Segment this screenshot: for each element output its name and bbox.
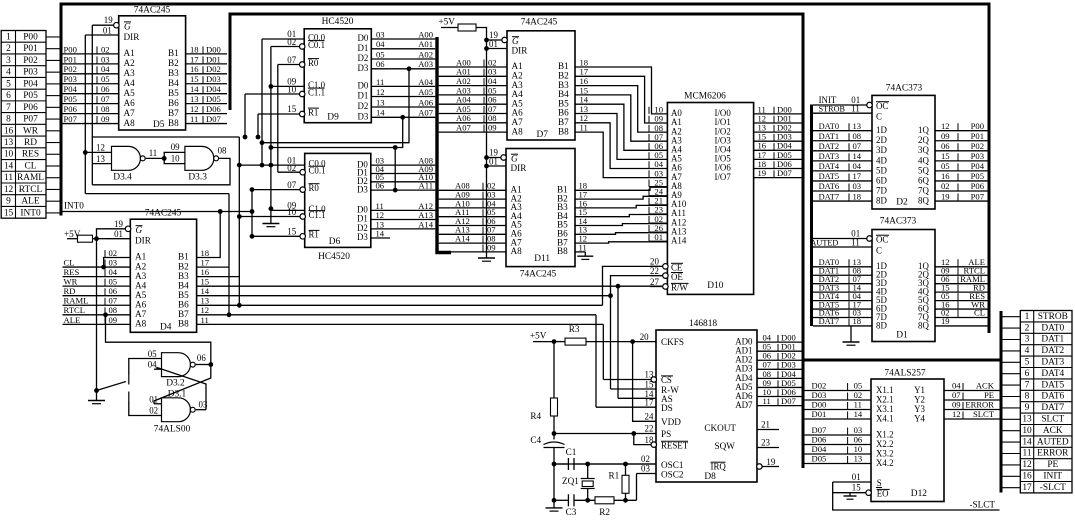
svg-text:A4: A4	[124, 78, 136, 88]
svg-text:74AC245: 74AC245	[521, 18, 558, 28]
svg-text:22: 22	[645, 423, 654, 433]
svg-text:15: 15	[852, 483, 861, 493]
svg-text:AUTED: AUTED	[1037, 437, 1069, 447]
svg-text:RD: RD	[64, 286, 76, 296]
svg-text:19: 19	[758, 168, 767, 178]
svg-text:11: 11	[851, 104, 860, 114]
svg-text:1: 1	[6, 32, 11, 42]
svg-text:09: 09	[488, 123, 497, 133]
wire D2 output 3Q pin 06 net P02	[935, 150, 988, 152]
svg-text:ACK: ACK	[976, 381, 995, 391]
svg-text:13: 13	[4, 138, 14, 148]
svg-text:B8: B8	[557, 246, 568, 256]
svg-text:G: G	[136, 225, 143, 235]
svg-text:74AC245: 74AC245	[145, 209, 182, 219]
wire D1 output 5Q pin 05 net RES	[935, 300, 988, 302]
svg-text:8Q: 8Q	[918, 320, 929, 330]
svg-text:12: 12	[190, 104, 199, 114]
svg-text:06: 06	[376, 181, 385, 191]
wire D9 output D2 pin 05 net A02	[371, 58, 435, 60]
svg-text:B4: B4	[178, 280, 189, 290]
svg-text:DAT3: DAT3	[1041, 358, 1064, 368]
svg-text:09: 09	[952, 400, 961, 410]
svg-text:X3.1: X3.1	[876, 404, 894, 414]
wire bus line B7 net	[197, 314, 596, 316]
svg-text:3D: 3D	[876, 145, 887, 155]
wire D5 output B6 pin 13 net D05	[186, 103, 227, 105]
svg-text:B3: B3	[178, 271, 189, 281]
wire right connector pin 6 DAT4 stub	[1003, 373, 1021, 375]
svg-text:A8: A8	[124, 118, 136, 128]
wire D7 input A06 pin 08	[439, 122, 507, 124]
svg-text:P03: P03	[971, 151, 984, 161]
wire D12 input X1.1 pin 05 net D02	[802, 390, 871, 392]
pin 01 DIR of D11	[487, 165, 507, 167]
svg-text:06: 06	[109, 286, 118, 296]
wire D9 pin02 riser to D6 area	[270, 47, 272, 211]
pin 10 C1.1 of D6	[300, 214, 306, 220]
pin 02 C0.1 of D6	[300, 169, 306, 175]
svg-text:02: 02	[854, 390, 863, 400]
svg-text:3Q: 3Q	[918, 145, 929, 155]
wire D7 output B6 to MCM A5	[575, 114, 667, 160]
svg-text:+5V: +5V	[530, 331, 547, 341]
wire D1 output 4Q pin 15 net RD	[935, 291, 988, 293]
svg-text:15: 15	[4, 208, 14, 218]
wire right connector pin 2 DAT0 stub	[1003, 327, 1021, 329]
svg-text:P01: P01	[971, 131, 984, 141]
wire D2 output 6Q pin 16 net P05	[935, 180, 988, 182]
svg-text:A2: A2	[135, 261, 147, 271]
svg-text:EO: EO	[877, 489, 889, 499]
pin 09 input of D3.3	[164, 152, 185, 158]
svg-text:19: 19	[114, 219, 123, 229]
wire left connector pin 6 P05 stub	[46, 95, 61, 97]
svg-text:P01: P01	[23, 44, 38, 54]
wire D2 output 1Q pin 12 net P00	[935, 130, 988, 132]
node junction on D3.4 input 12	[83, 150, 88, 155]
svg-text:07: 07	[287, 180, 296, 190]
svg-text:OC: OC	[876, 101, 888, 111]
svg-text:CKFS: CKFS	[661, 337, 684, 347]
svg-text:13: 13	[645, 370, 654, 380]
svg-text:18: 18	[853, 316, 862, 326]
svg-text:11: 11	[376, 77, 384, 87]
svg-text:D00: D00	[812, 400, 827, 410]
wire D6 output D1 pin 12 net A13	[371, 219, 436, 221]
svg-text:13: 13	[854, 454, 863, 464]
svg-text:A05: A05	[418, 87, 433, 97]
svg-text:Y1: Y1	[914, 385, 925, 395]
svg-text:12: 12	[201, 305, 210, 315]
svg-text:13: 13	[376, 97, 385, 107]
svg-text:05: 05	[101, 74, 110, 84]
svg-text:C1.1: C1.1	[309, 210, 326, 220]
IC D6 HC4520 counter box	[305, 153, 371, 247]
svg-text:HC4520: HC4520	[322, 17, 354, 27]
svg-text:D11: D11	[534, 254, 550, 264]
svg-text:D3: D3	[357, 232, 368, 242]
svg-text:DAT3: DAT3	[819, 152, 839, 161]
resistor R3	[565, 338, 586, 345]
node riser at D6 pin01	[237, 163, 242, 168]
wire D5 DIR riser to D3.4	[84, 35, 86, 194]
wire D10 I/O4 pin 16 net D04	[754, 149, 802, 151]
wire D1 output 7Q pin 02 net CL	[935, 317, 988, 319]
wire D7 input A07 pin 09	[439, 131, 507, 133]
svg-text:P01: P01	[64, 54, 77, 64]
pin 01 C0.0 of D9	[262, 38, 304, 40]
svg-text:09: 09	[171, 142, 180, 152]
wire bus line B5 net	[197, 295, 611, 297]
svg-text:07: 07	[853, 141, 862, 151]
wire D6 output D2 pin 05 net A10	[371, 181, 436, 183]
wire right connector pin 12 PE stub	[1003, 464, 1021, 466]
node riser at D6 pin10	[237, 214, 242, 219]
wire right connector pin 13 SLCT stub	[1003, 418, 1021, 420]
wire D9 pin15 source	[257, 114, 259, 137]
svg-text:2Q: 2Q	[918, 135, 929, 145]
wire right connector pin 1 STROB stub	[1003, 316, 1021, 318]
svg-text:02: 02	[101, 44, 110, 54]
svg-text:A11: A11	[419, 181, 433, 191]
svg-text:03: 03	[641, 464, 650, 474]
wire D5 output B3 pin 16 net D02	[186, 73, 227, 75]
svg-text:5: 5	[6, 79, 11, 89]
svg-text:3: 3	[6, 56, 11, 66]
wire latch lower feedback	[85, 193, 229, 195]
svg-text:-SLCT: -SLCT	[969, 500, 995, 510]
IC D8 146818 RTC box	[656, 330, 757, 482]
wire D9 output D1 pin 12 net A05	[371, 96, 435, 98]
IC D11 74AC245 buffer box	[506, 149, 575, 267]
pin 07 R0 of D9	[299, 62, 305, 68]
svg-text:D04: D04	[206, 84, 222, 94]
svg-text:D05: D05	[206, 94, 221, 104]
resistor pullup at D4 DIR	[78, 235, 93, 242]
node OE/bus2 junction	[608, 293, 613, 298]
svg-text:RES: RES	[64, 267, 80, 277]
pin 01 OC of D2 net INIT	[867, 102, 873, 108]
svg-text:R0: R0	[309, 183, 320, 193]
wire D4 input RD pin 06	[63, 295, 131, 297]
svg-text:06: 06	[854, 435, 863, 445]
wire D6 R0 riser	[251, 190, 253, 237]
svg-text:01: 01	[852, 472, 861, 482]
wire D12 input X2.1 pin 02 net D03	[802, 399, 871, 401]
svg-text:11: 11	[854, 400, 862, 410]
svg-text:DAT0: DAT0	[1041, 323, 1064, 333]
svg-text:ALE: ALE	[64, 315, 81, 325]
svg-text:D3: D3	[357, 63, 368, 73]
svg-text:08: 08	[853, 131, 862, 141]
svg-text:D03: D03	[812, 390, 827, 400]
wire D8 AD4 pin 08 net D04	[757, 377, 802, 379]
svg-text:D1: D1	[896, 331, 908, 341]
svg-text:A02: A02	[418, 49, 433, 59]
svg-text:14: 14	[190, 84, 199, 94]
svg-text:OC: OC	[876, 235, 888, 245]
svg-text:7D: 7D	[876, 185, 887, 195]
svg-text:CL: CL	[25, 161, 37, 171]
wire D2 input DAT5 pin 17	[813, 180, 872, 182]
svg-text:19: 19	[766, 457, 775, 467]
wire R3 to CKFS pin 20	[554, 341, 565, 343]
pin 10 input of D3.3	[164, 158, 185, 163]
svg-text:ZQ1: ZQ1	[562, 476, 579, 486]
wire D7 input A05 pin 07	[439, 113, 507, 115]
svg-text:D2: D2	[357, 53, 368, 63]
svg-text:09: 09	[487, 242, 496, 252]
wire D1 input DAT6 pin 03	[813, 317, 872, 319]
svg-text:12: 12	[952, 409, 961, 419]
svg-text:02: 02	[109, 248, 118, 258]
wire D10 I/O1 pin 12 net D01	[754, 122, 802, 124]
svg-text:P02: P02	[64, 64, 77, 74]
wire right connector pin 16 INIT stub	[1003, 475, 1021, 477]
node riser at RTCL row	[103, 312, 108, 317]
svg-text:02: 02	[641, 454, 650, 464]
wire D2 input DAT7 pin 18	[813, 200, 872, 202]
svg-text:STROB: STROB	[819, 105, 846, 114]
svg-text:12: 12	[4, 185, 14, 195]
wire D9 pin10 source	[244, 94, 246, 137]
svg-text:DAT7: DAT7	[819, 192, 839, 201]
wire board-edge outer frame (left+top+right)	[61, 4, 989, 333]
wire left connector pin 2 P01 stub	[46, 48, 61, 50]
svg-text:4Q: 4Q	[918, 155, 929, 165]
pin 01 input of D3.1	[154, 403, 162, 405]
svg-text:01: 01	[489, 39, 498, 49]
wire D7 output B2 to MCM A1	[575, 76, 667, 123]
wire left connector pin 12 RTCL stub	[46, 188, 61, 190]
svg-text:04: 04	[853, 161, 862, 171]
svg-text:P00: P00	[23, 32, 38, 42]
svg-text:15: 15	[190, 74, 199, 84]
svg-text:D2: D2	[357, 101, 368, 111]
svg-text:R0: R0	[308, 58, 319, 68]
svg-text:D1: D1	[357, 91, 368, 101]
wire right connector pin 3 DAT1 stub	[1003, 339, 1021, 341]
svg-text:10: 10	[1022, 426, 1032, 436]
wire D7 input A02 pin 04	[439, 85, 507, 87]
IC D5 74AC245 buffer box	[119, 16, 186, 130]
node B1 riser at INT0	[218, 209, 223, 214]
wire D7 output B5 to MCM A4	[575, 104, 667, 150]
svg-text:D02: D02	[206, 64, 221, 74]
svg-text:X4.1: X4.1	[876, 413, 894, 423]
svg-text:A7: A7	[135, 309, 147, 319]
pin 27 R/W of D10	[663, 284, 669, 290]
svg-text:D03: D03	[206, 74, 221, 84]
svg-text:RD: RD	[24, 138, 37, 148]
svg-text:11: 11	[580, 123, 588, 133]
svg-text:P05: P05	[971, 171, 984, 181]
svg-text:7: 7	[6, 103, 11, 113]
wire D11 output B5 to MCM A12	[575, 224, 667, 226]
wire left connector pin 3 P02 stub	[46, 59, 61, 61]
pin 22 OE of D10	[663, 273, 669, 279]
svg-text:04: 04	[109, 267, 118, 277]
wire OSC2 elbow	[636, 474, 638, 501]
svg-text:05: 05	[148, 349, 157, 359]
wire D12 input X4.2 pin 13 net D05	[802, 463, 871, 465]
wire D6 output D0 pin 11 net A12	[371, 209, 436, 211]
svg-text:P05: P05	[64, 94, 77, 104]
svg-text:16: 16	[1022, 472, 1032, 482]
svg-text:DIR: DIR	[135, 236, 152, 246]
svg-text:B5: B5	[168, 88, 179, 98]
node D6 pin15 junction	[250, 234, 255, 239]
wire right connector pin 10 ACK stub	[1003, 430, 1021, 432]
wire D10 I/O2 pin 13 net D02	[754, 131, 802, 133]
svg-text:A6: A6	[124, 98, 136, 108]
svg-text:B8: B8	[168, 118, 179, 128]
wire right connector pin 5 DAT3 stub	[1003, 361, 1021, 363]
wire D2 input DAT2 pin 07	[813, 150, 872, 152]
wire D5 input P07 pin 09	[63, 123, 119, 125]
svg-text:16: 16	[190, 64, 199, 74]
svg-text:RES: RES	[22, 150, 39, 160]
node switch common junction	[94, 388, 99, 393]
svg-text:B8: B8	[178, 319, 189, 329]
gate D3.2 NAND	[162, 353, 191, 377]
wire D12 input X3.2 pin 10 net D04	[802, 453, 871, 455]
node C3 rail junction	[552, 498, 557, 503]
svg-text:01: 01	[103, 25, 112, 35]
svg-text:ERROR: ERROR	[965, 400, 994, 410]
svg-text:08: 08	[218, 146, 227, 156]
svg-text:DIR: DIR	[512, 45, 529, 55]
pin 03 output of D3.1	[196, 409, 206, 411]
svg-text:12: 12	[1022, 460, 1032, 470]
IC D7 74AC245 buffer box	[507, 31, 575, 140]
svg-text:D0: D0	[357, 33, 368, 43]
svg-text:R4: R4	[530, 411, 541, 421]
svg-text:D06: D06	[206, 104, 222, 114]
node riser junction at D6 pin01 row	[269, 163, 274, 168]
svg-text:X1.2: X1.2	[876, 429, 894, 439]
svg-text:22: 22	[650, 266, 659, 276]
wire D5 input P01 pin 03	[63, 63, 119, 65]
wire D1 output 3Q pin 06 net RAML	[935, 283, 988, 285]
node D9 pin09 junction	[269, 84, 274, 89]
node cascade crossing D9 pin01 riser	[260, 140, 265, 145]
wire D11 output B4 to MCM A11	[575, 215, 667, 217]
svg-text:B7: B7	[178, 309, 189, 319]
svg-text:C1.1: C1.1	[308, 87, 325, 97]
svg-text:09: 09	[109, 315, 118, 325]
svg-text:P03: P03	[23, 68, 38, 78]
svg-text:INT0: INT0	[64, 201, 84, 211]
svg-text:6D: 6D	[876, 175, 887, 185]
svg-text:X1.1: X1.1	[876, 385, 894, 395]
svg-text:3: 3	[1025, 335, 1030, 345]
svg-text:10: 10	[171, 154, 180, 164]
svg-text:ALE: ALE	[21, 197, 39, 207]
svg-text:X2.1: X2.1	[876, 394, 894, 404]
svg-text:DIR: DIR	[124, 32, 141, 42]
svg-text:8: 8	[6, 115, 11, 125]
wire left connector pin 7 P06 stub	[46, 106, 61, 108]
svg-text:18: 18	[853, 191, 862, 201]
wire right connector pin 14 AUTED stub	[1003, 441, 1021, 443]
wire latch output to RTCL riser	[106, 315, 211, 365]
svg-text:17: 17	[645, 398, 654, 408]
wire D2 output 7Q pin 02 net P06	[935, 190, 988, 192]
svg-text:INT0: INT0	[20, 208, 41, 218]
wire D12 input X2.2 pin 06 net D06	[802, 444, 871, 446]
svg-text:P04: P04	[23, 79, 38, 89]
switch lower contact	[128, 392, 130, 402]
ground under D1	[850, 326, 852, 342]
svg-text:D01: D01	[812, 409, 827, 419]
node riser/bus3 junction	[237, 303, 242, 308]
svg-text:D07: D07	[812, 425, 828, 435]
svg-text:P04: P04	[64, 84, 78, 94]
svg-text:8D: 8D	[876, 320, 887, 330]
svg-text:5Q: 5Q	[918, 165, 929, 175]
svg-text:A2: A2	[124, 58, 136, 68]
wire switch lower contact to D3.1 input 02	[129, 402, 162, 416]
svg-text:RESET: RESET	[661, 441, 689, 451]
svg-text:03: 03	[101, 54, 110, 64]
node +5V rail junction	[552, 339, 557, 344]
svg-text:07: 07	[287, 55, 296, 65]
svg-text:X4.2: X4.2	[876, 458, 894, 468]
wire D4 input A1 pin 02	[104, 258, 131, 268]
ground at EO	[849, 493, 851, 496]
svg-text:13: 13	[1022, 415, 1032, 425]
svg-text:C0.1: C0.1	[308, 40, 325, 50]
svg-text:CL: CL	[64, 257, 75, 267]
wire D7 output B8 to MCM A7	[575, 132, 667, 178]
svg-text:DS: DS	[661, 403, 673, 413]
svg-text:Y2: Y2	[914, 394, 925, 404]
svg-text:D05: D05	[812, 454, 827, 464]
node D6 pin09 junction	[269, 206, 274, 211]
node INT0 junction	[250, 209, 255, 214]
node DIR junction	[484, 46, 489, 51]
svg-text:D3: D3	[357, 112, 368, 122]
svg-text:7: 7	[1025, 380, 1030, 390]
wire latch feedback top	[92, 137, 239, 185]
wire D10 I/O0 pin 11 net D00	[754, 113, 802, 115]
svg-text:02: 02	[287, 37, 296, 47]
svg-text:09: 09	[941, 131, 950, 141]
svg-text:S: S	[877, 478, 882, 488]
svg-text:A3: A3	[124, 68, 136, 78]
svg-text:P02: P02	[23, 56, 38, 66]
crystal ZQ1	[587, 464, 589, 479]
wire D8 AD1 pin 05 net D01	[757, 350, 802, 352]
wire D12 output Y3 pin 09 net ERROR	[944, 409, 1000, 411]
wire left connector pin 16 WR stub	[46, 130, 61, 132]
wire D1 input DAT5 pin 17	[813, 308, 872, 310]
pin 18 RESET of D8	[651, 442, 657, 448]
wire D11 output B2 to MCM A9	[575, 196, 667, 199]
wire D7 output B3 to MCM A2	[575, 86, 667, 133]
svg-text:C3: C3	[566, 507, 577, 517]
ground at oscillator rail	[553, 500, 555, 508]
svg-text:07: 07	[952, 390, 961, 400]
svg-text:B3: B3	[168, 68, 179, 78]
svg-text:15: 15	[201, 277, 210, 287]
wire D4 input CL pin 03	[63, 266, 131, 268]
svg-text:B6: B6	[168, 98, 179, 108]
svg-text:A00: A00	[418, 29, 433, 39]
pin 13 CS of D8	[651, 377, 657, 383]
